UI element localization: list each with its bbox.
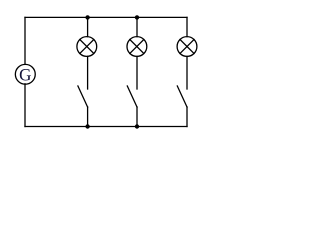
wire branch2 top — [136, 17, 138, 36]
wire branch2 middle — [136, 56, 138, 89]
switch S1 — [78, 86, 88, 107]
wire left lower — [24, 84, 26, 127]
wire bottom bus — [25, 126, 187, 128]
lamp L1 — [77, 37, 97, 57]
node junction bottom branch2 — [135, 124, 139, 128]
switch S2 — [127, 86, 137, 107]
switch S3 — [177, 86, 187, 107]
wire left upper — [24, 17, 26, 64]
generator G1 — [15, 64, 35, 84]
node junction bottom branch1 — [85, 124, 89, 128]
wire branch3 top (right side) — [186, 17, 188, 36]
wire top bus — [25, 16, 187, 18]
lamp L2 — [127, 37, 147, 57]
label G of generator (Liberation Serif glyph outline) — [20, 69, 31, 80]
wire branch2 bottom — [136, 107, 138, 127]
wire branch3 middle — [186, 56, 188, 89]
node junction top branch1 — [85, 15, 89, 19]
wire branch3 bottom — [186, 107, 188, 127]
wire branch1 bottom — [87, 107, 89, 127]
wire branch1 top — [87, 17, 89, 36]
lamp L3 — [177, 37, 197, 57]
node junction top branch2 — [135, 15, 139, 19]
wire branch1 middle — [87, 56, 89, 89]
